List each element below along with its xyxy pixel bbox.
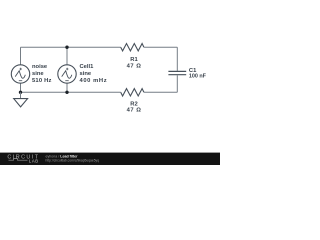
svg-text:noise: noise xyxy=(32,64,48,70)
Cell1 minus sign xyxy=(65,80,68,82)
svg-text:400 mHz: 400 mHz xyxy=(80,78,108,84)
ground symbol xyxy=(14,99,28,107)
ground stub wire xyxy=(20,92,22,98)
wire C1 bottom lead xyxy=(176,75,178,92)
noise source plus sign xyxy=(20,68,22,70)
svg-text:47 Ω: 47 Ω xyxy=(127,63,142,69)
svg-text:R2: R2 xyxy=(130,102,137,108)
Cell1 sine symbol xyxy=(62,71,72,78)
node junction top of Cell1 xyxy=(65,46,68,49)
voltage source Cell1 circle xyxy=(58,65,76,83)
resistor R2 xyxy=(121,89,144,96)
wire top rail right xyxy=(144,46,177,48)
footer bar xyxy=(0,153,220,165)
wire bottom rail left xyxy=(21,91,121,93)
svg-text:sine: sine xyxy=(80,71,92,77)
svg-text:sine: sine xyxy=(32,71,44,77)
svg-text:http://circuitlab.com/c/9kap5u: http://circuitlab.com/c/9kap5uqae5yq xyxy=(46,159,100,163)
noise source sine symbol xyxy=(15,71,25,78)
wire bottom rail right xyxy=(144,91,177,93)
Cell1 plus sign xyxy=(66,68,68,70)
wire noise source top lead xyxy=(20,47,22,65)
svg-text:LAB: LAB xyxy=(29,159,39,164)
svg-text:100 nF: 100 nF xyxy=(189,73,207,79)
capacitor C1 xyxy=(168,71,186,74)
svg-text:Cell1: Cell1 xyxy=(80,64,95,70)
node junction bottom of Cell1 xyxy=(65,91,68,94)
wire Cell1 bottom lead xyxy=(66,83,68,92)
noise source minus sign xyxy=(19,80,22,82)
wire Cell1 top lead xyxy=(66,47,68,65)
voltage source noise circle xyxy=(11,65,29,83)
wire top rail left xyxy=(21,46,121,48)
node junction bottom of noise source xyxy=(19,91,22,94)
footer logo waveform xyxy=(9,159,28,161)
svg-text:510 Hz: 510 Hz xyxy=(32,78,52,84)
wire noise source bottom lead xyxy=(20,83,22,92)
resistor R1 xyxy=(121,44,144,51)
wire C1 top lead xyxy=(176,47,178,71)
svg-text:R1: R1 xyxy=(130,57,138,63)
svg-text:47 Ω: 47 Ω xyxy=(127,108,142,114)
